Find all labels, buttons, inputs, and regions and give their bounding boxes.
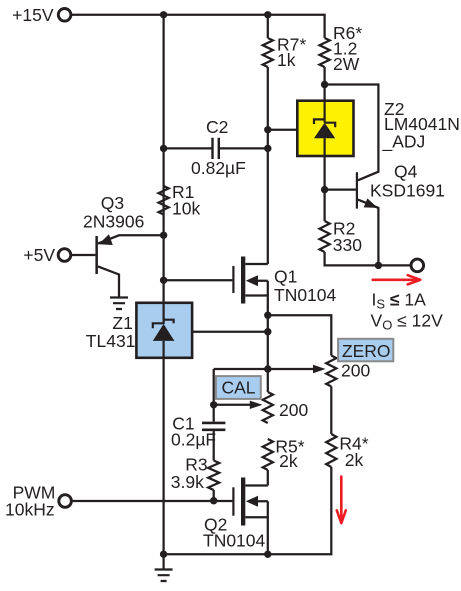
svg-text:2N3906: 2N3906	[83, 212, 144, 232]
svg-text:+15V: +15V	[12, 5, 54, 25]
svg-text:2W: 2W	[333, 54, 360, 74]
svg-text:ZERO: ZERO	[342, 341, 391, 361]
svg-text:10k: 10k	[172, 198, 200, 218]
svg-text:200: 200	[279, 400, 308, 420]
svg-text:3.9k: 3.9k	[171, 472, 204, 492]
svg-text:VO ≤ 12V: VO ≤ 12V	[371, 310, 444, 332]
svg-text:TN0104: TN0104	[274, 285, 337, 305]
svg-text:2k: 2k	[345, 450, 364, 470]
svg-text:TL431: TL431	[86, 331, 136, 351]
svg-text:KSD1691: KSD1691	[370, 181, 445, 201]
svg-text:C2: C2	[206, 117, 228, 137]
svg-text:CAL: CAL	[221, 377, 255, 397]
svg-text:200: 200	[341, 361, 370, 381]
svg-text:Q4: Q4	[394, 162, 418, 182]
svg-text:Q3: Q3	[101, 193, 124, 213]
svg-text:_ADJ: _ADJ	[382, 131, 426, 152]
svg-text:0.82µF: 0.82µF	[191, 158, 246, 178]
svg-text:+5V: +5V	[23, 245, 55, 265]
svg-text:10kHz: 10kHz	[5, 499, 55, 519]
svg-text:Q1: Q1	[274, 267, 297, 287]
svg-text:330: 330	[333, 235, 362, 255]
svg-text:TN0104: TN0104	[203, 530, 266, 550]
svg-text:0.2µF: 0.2µF	[171, 430, 216, 450]
svg-text:2k: 2k	[279, 451, 298, 471]
svg-text:Z1: Z1	[112, 313, 132, 333]
svg-text:1k: 1k	[277, 50, 296, 70]
